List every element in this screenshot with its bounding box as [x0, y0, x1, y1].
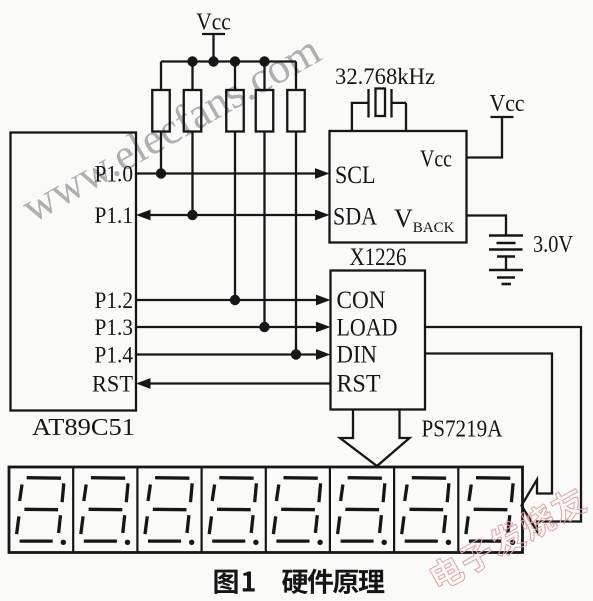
svg-text:32.768kHz: 32.768kHz [335, 64, 435, 89]
battery BT1 3.0V [489, 236, 523, 257]
7-segment digit 1 [17, 478, 64, 541]
7-segment digit 3 [145, 478, 192, 541]
junction dots on Vcc bus [187, 56, 197, 66]
svg-text:P1.2: P1.2 [95, 288, 134, 313]
wire P1.3 to LOAD [136, 326, 317, 328]
resistor R2 (pull-up) [191, 62, 193, 91]
svg-text:P1.0: P1.0 [95, 162, 134, 187]
wire R4 bottom lead [263, 132, 265, 328]
resistor R5 (pull-up) [295, 62, 297, 91]
7-segment digit 8 [466, 478, 513, 541]
svg-text:P1.4: P1.4 [95, 343, 134, 368]
resistor R4 (pull-up) [263, 62, 265, 91]
resistor R3 (pull-up) [234, 62, 236, 91]
8-digit LED display module [9, 467, 523, 553]
svg-text:PS7219A: PS7219A [422, 417, 504, 443]
display cell border [393, 467, 395, 553]
svg-text:DIN: DIN [337, 342, 378, 369]
wire P1.1 to SDA (bidirectional) [150, 214, 316, 216]
display cell border [72, 467, 74, 553]
svg-text:X1226: X1226 [350, 244, 407, 271]
ground symbol [489, 270, 523, 284]
wire PS7219A RST to MCU RST [150, 382, 331, 384]
wire Vcc bus to pull-up resistors [161, 60, 296, 62]
red watermark 电子发烧友 [427, 484, 589, 593]
hollow arrow PS7219A to display [340, 410, 410, 467]
svg-text:AT89C51: AT89C51 [32, 415, 135, 441]
svg-text:SDA: SDA [333, 204, 377, 231]
svg-text:3.0V: 3.0V [533, 232, 574, 258]
display cell border [265, 467, 267, 553]
arrowhead into CON [316, 295, 331, 306]
arrowhead into LOAD [316, 322, 331, 333]
wire P1.0 to SCL [136, 172, 316, 174]
wire X1226 Vback pin to battery [467, 216, 507, 235]
crystal Y1 32.768kHz [352, 103, 369, 131]
wire R3 bottom lead [234, 132, 236, 301]
svg-text:RST: RST [92, 372, 133, 397]
svg-text:Vcc: Vcc [490, 91, 525, 117]
svg-text:P1.1: P1.1 [95, 203, 134, 228]
junction R3/CON [230, 295, 240, 305]
7-segment digit 5 [273, 478, 320, 541]
svg-text:Vcc: Vcc [196, 10, 231, 36]
display cell border [457, 467, 459, 553]
svg-text:LOAD: LOAD [337, 315, 398, 342]
power Vcc symbol (right) [491, 116, 514, 118]
arrowhead into SDA [315, 210, 330, 221]
svg-text:SCL: SCL [335, 162, 376, 189]
7-segment digit 7 [402, 478, 449, 541]
resistor R1 (pull-up) [160, 62, 162, 91]
svg-text:P1.3: P1.3 [95, 315, 134, 340]
wire LOAD/DIN to display (hollow arrow) [425, 327, 581, 531]
wire P1.4 to DIN [136, 353, 317, 355]
7-segment digit 2 [81, 478, 128, 541]
display cell border [329, 467, 331, 553]
svg-text:RST: RST [337, 371, 381, 398]
svg-text:Vcc: Vcc [420, 147, 452, 173]
junction R1/SCL [156, 168, 166, 178]
power Vcc symbol (top) [202, 34, 225, 62]
wire P1.2 to CON [136, 299, 317, 301]
7-segment digit 6 [338, 478, 385, 541]
arrowhead into DIN [316, 349, 331, 360]
wire R2 bottom lead [191, 132, 193, 216]
arrowhead into MCU RST [136, 378, 151, 389]
caption 图1 硬件原理 [214, 570, 237, 594]
arrowhead into SCL [315, 168, 330, 179]
junction R4/LOAD [259, 322, 269, 332]
wire X1226 Vcc pin to Vcc [467, 117, 503, 158]
MCU U1 AT89C51 box [11, 133, 137, 411]
RTC U2 X1226 box [330, 131, 467, 243]
junction R5/DIN [291, 349, 301, 359]
wire R1 bottom lead [160, 132, 162, 174]
display cell border [201, 467, 203, 553]
junction R2/SDA [187, 210, 197, 220]
display driver U3 PS7219A box [331, 271, 426, 410]
arrowhead into P1.1 [136, 210, 151, 221]
display cell border [136, 467, 138, 553]
7-segment digit 4 [209, 478, 256, 541]
svg-text:CON: CON [337, 287, 386, 314]
wire R5 bottom lead [295, 132, 297, 355]
